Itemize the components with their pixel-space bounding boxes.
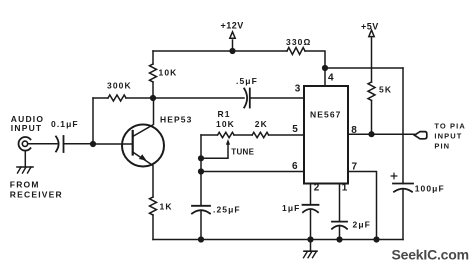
svg-text:TO PIA: TO PIA: [434, 122, 465, 131]
svg-text:0.1μF: 0.1μF: [51, 119, 79, 129]
svg-text:4: 4: [328, 73, 334, 84]
svg-text:TUNE: TUNE: [231, 148, 254, 157]
svg-text:1μF: 1μF: [282, 203, 300, 213]
svg-text:1K: 1K: [160, 202, 173, 212]
svg-text:5K: 5K: [379, 85, 392, 95]
svg-text:+12V: +12V: [221, 20, 244, 30]
svg-text:8: 8: [351, 125, 357, 136]
svg-text:INPUT: INPUT: [11, 123, 43, 133]
svg-text:FROM: FROM: [10, 179, 40, 189]
svg-text:.5μF: .5μF: [236, 76, 258, 86]
svg-text:7: 7: [352, 162, 358, 173]
svg-text:300K: 300K: [107, 81, 132, 91]
svg-text:6: 6: [292, 161, 298, 172]
svg-text:NE567: NE567: [310, 110, 342, 120]
svg-text:HEP53: HEP53: [160, 115, 192, 125]
svg-text:3: 3: [295, 84, 301, 95]
svg-text:2: 2: [314, 183, 320, 194]
svg-text:2μF: 2μF: [353, 220, 371, 230]
svg-text:10K: 10K: [216, 119, 235, 129]
svg-text:1: 1: [342, 183, 348, 194]
svg-text:SeekIC.com: SeekIC.com: [392, 247, 469, 263]
svg-text:2K: 2K: [255, 119, 268, 129]
svg-text:PIN: PIN: [434, 141, 450, 150]
svg-text:10K: 10K: [159, 68, 178, 78]
svg-text:100μF: 100μF: [415, 183, 445, 193]
svg-text:RECEIVER: RECEIVER: [10, 190, 63, 200]
svg-text:5: 5: [292, 124, 298, 135]
svg-text:R1: R1: [218, 109, 231, 119]
svg-text:330Ω: 330Ω: [286, 37, 311, 47]
svg-text:.25μF: .25μF: [213, 205, 241, 215]
svg-text:+5V: +5V: [361, 21, 379, 31]
svg-text:INPUT: INPUT: [434, 131, 462, 140]
